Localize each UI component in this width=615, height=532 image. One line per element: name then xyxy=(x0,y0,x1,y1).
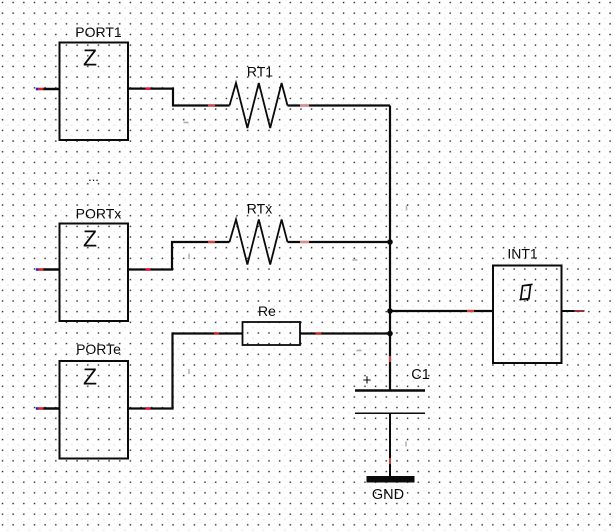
junction node Re-bus xyxy=(387,331,393,337)
wire PORTx to RTx xyxy=(128,242,230,270)
junction node RTx-bus xyxy=(387,239,393,245)
svg-text:Re: Re xyxy=(258,303,276,319)
wire PORTe to Re xyxy=(128,334,243,409)
svg-text:Z: Z xyxy=(83,364,97,390)
stray mark left of bus middle xyxy=(353,259,358,261)
pin mark C1 top xyxy=(389,356,391,362)
svg-text:Z: Z xyxy=(83,45,97,71)
pin mark PORT1 right xyxy=(146,87,151,90)
stray mark below PORTx wire xyxy=(188,254,190,259)
port PORTx body xyxy=(60,224,129,322)
port PORTx left pin xyxy=(36,268,60,271)
wire RTx to bus xyxy=(288,241,391,243)
integrator INT1 body xyxy=(493,266,562,364)
port PORTe label xyxy=(76,341,121,357)
ground GND xyxy=(367,476,415,483)
capacitor C1 plus sign xyxy=(363,372,372,389)
wire RT1 to bus xyxy=(288,104,391,106)
stray mark above PORTe wire xyxy=(188,369,190,374)
resistor RT1 label xyxy=(247,64,273,80)
svg-text:PORTx: PORTx xyxy=(76,206,122,222)
port PORT1 body xyxy=(60,43,129,141)
pin mark RT1 right xyxy=(300,105,309,107)
svg-text:GND: GND xyxy=(372,487,404,503)
stray mark right of bus top xyxy=(406,206,408,211)
resistor Re label xyxy=(258,303,276,319)
resistor Re xyxy=(243,322,301,345)
junction node INT1-bus xyxy=(387,308,393,314)
svg-text:C1: C1 xyxy=(411,367,430,383)
port PORTe left pin xyxy=(36,407,60,410)
wire C1 to ground xyxy=(389,413,391,476)
stray mark below Re wire xyxy=(357,350,362,352)
pin mark RTx left xyxy=(208,241,215,243)
svg-text:INT1: INT1 xyxy=(507,246,538,262)
pin mark PORTe right xyxy=(146,407,151,410)
pin mark RT1 left xyxy=(208,104,215,106)
ellipsis between ports xyxy=(88,169,99,184)
pin mark INT1 left xyxy=(467,310,474,312)
integrator INT1 right pin xyxy=(562,310,585,312)
port PORTe body xyxy=(60,361,129,459)
wire bus vertical xyxy=(389,106,391,390)
port PORT1 left pin xyxy=(36,88,60,91)
port PORT1 label xyxy=(75,24,122,40)
stray mark below C1 xyxy=(405,442,407,447)
pin mark C1 bottom xyxy=(389,458,391,464)
svg-text:RTx: RTx xyxy=(247,201,272,217)
svg-text:PORTe: PORTe xyxy=(76,341,121,357)
resistor RTx label xyxy=(247,201,272,217)
svg-text:PORT1: PORT1 xyxy=(75,24,122,40)
pin mark Re right xyxy=(316,332,322,334)
svg-text:+: + xyxy=(363,372,372,389)
stray mark near RT1 wire xyxy=(184,122,189,124)
svg-text:Z: Z xyxy=(83,226,97,252)
ground GND label xyxy=(372,487,404,503)
pin mark Re left xyxy=(214,332,219,334)
pin mark PORTx right xyxy=(146,268,151,271)
capacitor C1 xyxy=(355,391,425,414)
svg-text:...: ... xyxy=(88,169,99,184)
wire bus to INT1 xyxy=(390,310,493,312)
resistor RT1 xyxy=(230,83,288,128)
capacitor C1 label xyxy=(411,367,430,383)
resistor RTx xyxy=(230,220,288,265)
wire Re to bus xyxy=(300,332,390,334)
pin mark RTx right xyxy=(300,241,309,243)
svg-text:RT1: RT1 xyxy=(247,64,273,80)
integrator INT1 label xyxy=(507,246,538,262)
wire PORT1 to RT1 xyxy=(128,89,230,106)
port PORTx label xyxy=(76,206,122,222)
